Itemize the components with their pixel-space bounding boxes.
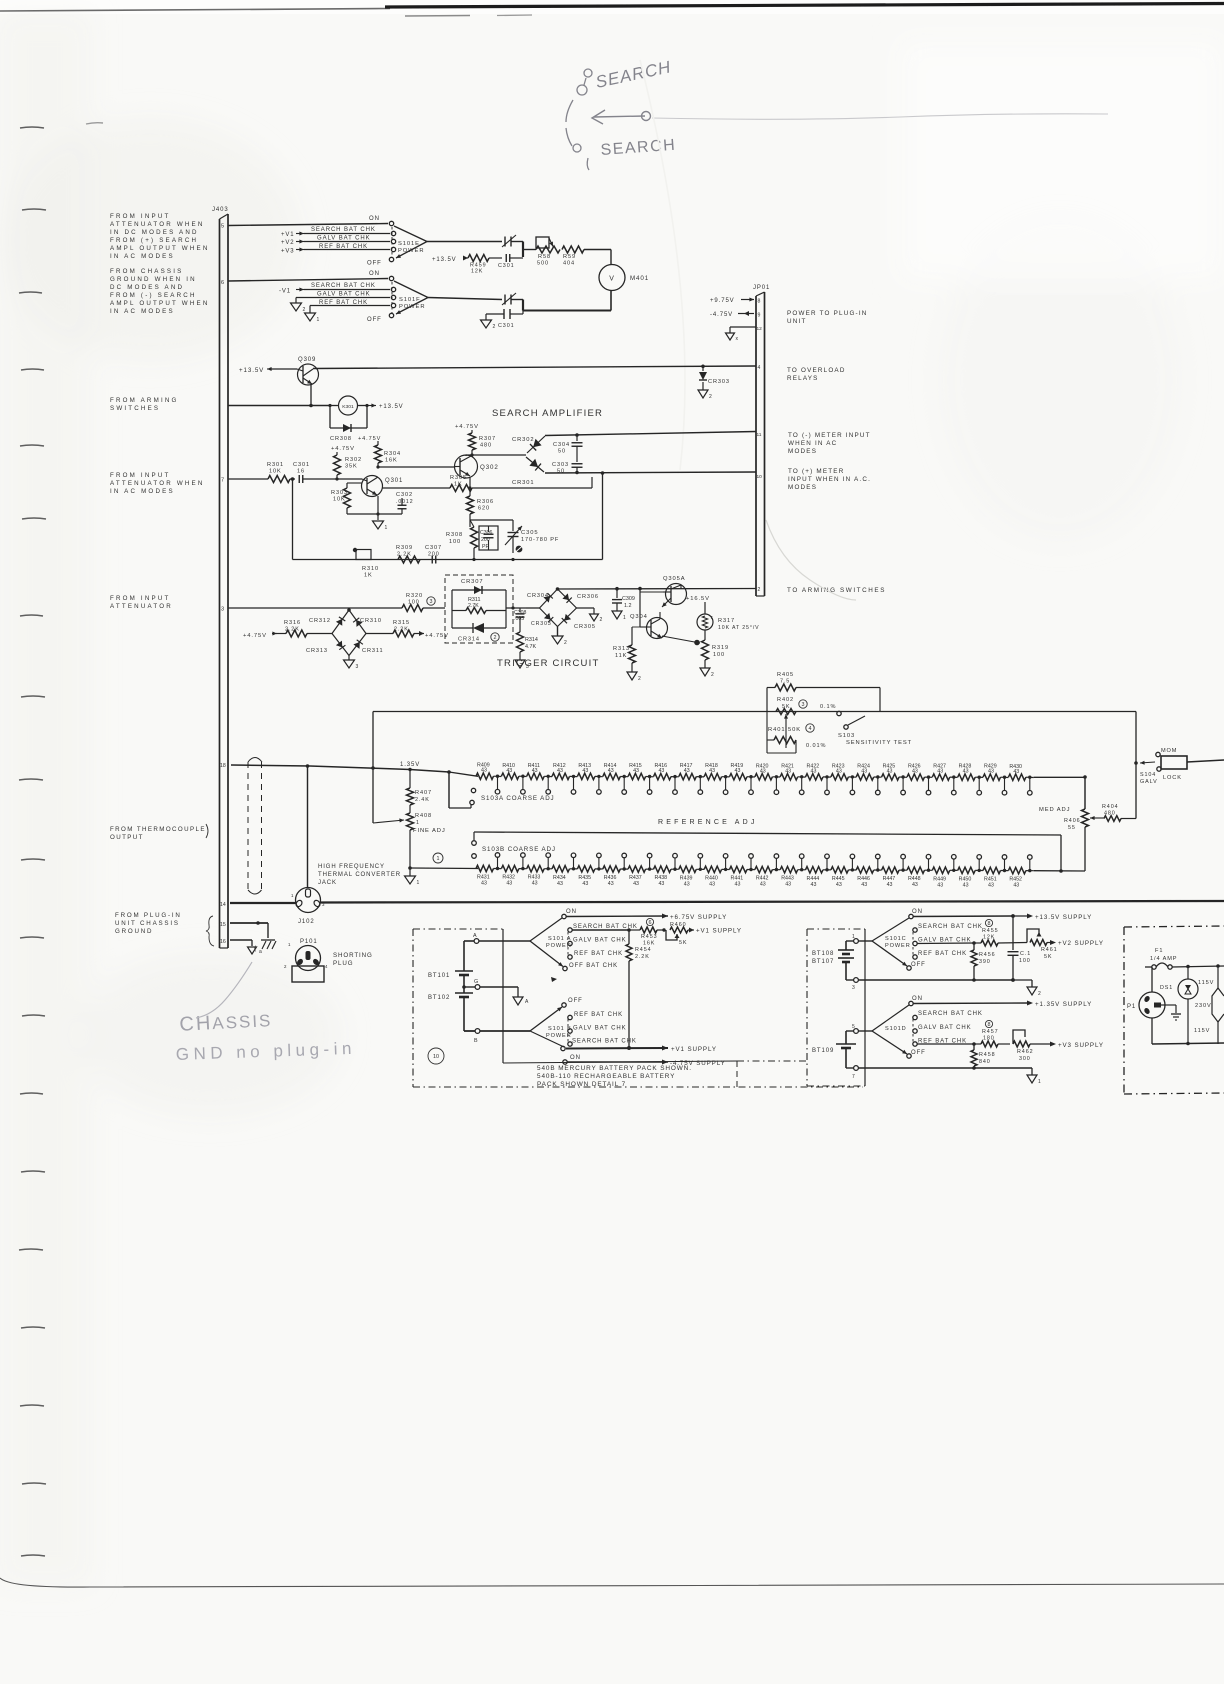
resistor R59 404 [562, 246, 584, 267]
tap contact 15 row2 [850, 854, 855, 872]
S103B selector [472, 832, 556, 858]
svg-text:1.2: 1.2 [624, 603, 632, 609]
pin 12 wire to ground [730, 326, 762, 333]
tap contact 9 row2 [698, 854, 703, 872]
pin 5 [846, 1024, 872, 1033]
big box top line [373, 711, 1136, 713]
resistor R456 [971, 943, 996, 982]
battery BT108/BT107 [812, 941, 854, 980]
svg-text:REF BAT CHK: REF BAT CHK [574, 951, 623, 957]
note: from chassis ground [110, 268, 210, 315]
transistor Q301 [362, 476, 404, 497]
resistor R404 [1102, 763, 1136, 821]
tap contact 21 row2 [1002, 855, 1007, 873]
transistor Q305A [640, 576, 687, 607]
switch S101C [872, 909, 926, 970]
svg-text:P1: P1 [1127, 1004, 1136, 1010]
note to (+) meter input [788, 468, 871, 491]
svg-text:18: 18 [220, 763, 226, 769]
svg-text:OFF: OFF [367, 261, 382, 267]
note: from arming switches [110, 397, 179, 412]
svg-text:16K: 16K [385, 458, 398, 464]
svg-text:+16.5V: +16.5V [686, 596, 710, 602]
resistor R427 [932, 764, 957, 781]
svg-text:R408: R408 [415, 813, 432, 819]
tap contact 17 row2 [901, 854, 906, 872]
coupling symbol lower [502, 293, 516, 305]
svg-text:C301: C301 [498, 263, 515, 269]
capacitor C306 box [479, 526, 498, 550]
svg-text:ON: ON [912, 909, 923, 915]
wire to pin 10 [545, 472, 756, 473]
svg-text:5: 5 [221, 224, 225, 230]
tap contact 3 row1 [546, 775, 551, 795]
AC box bottom wire [1152, 1042, 1224, 1046]
svg-text:C307: C307 [425, 545, 442, 551]
svg-text:REFERENCE ADJ: REFERENCE ADJ [658, 819, 758, 826]
resistor R421 [780, 763, 805, 780]
label +4.75V (bridge right) [414, 631, 449, 639]
svg-text:x: x [736, 336, 739, 342]
svg-text:50: 50 [557, 469, 565, 475]
svg-text:1.35V: 1.35V [400, 762, 420, 768]
handwritten note: SEARCH (top) [566, 69, 592, 170]
svg-text:C306: C306 [480, 530, 493, 536]
svg-text:C301: C301 [498, 323, 515, 329]
capacitor C303 [552, 447, 583, 475]
svg-text:CR312: CR312 [309, 618, 331, 624]
svg-text:IN AC MODES: IN AC MODES [110, 488, 175, 495]
svg-text:IN AC MODES: IN AC MODES [110, 308, 175, 315]
svg-text:1: 1 [291, 893, 294, 898]
ground V1 battery bottom [974, 1068, 1042, 1085]
svg-text:7.5: 7.5 [780, 679, 790, 685]
svg-text:R404: R404 [1102, 804, 1119, 810]
wire +1.35V supply [913, 1001, 1092, 1009]
svg-text:a: a [259, 949, 263, 955]
tap contact 14 row2 [825, 854, 830, 872]
svg-text:1: 1 [416, 820, 420, 826]
svg-text:S101 A: S101 A [548, 936, 571, 942]
svg-text:2: 2 [1038, 991, 1042, 997]
resistor R413 [577, 763, 602, 780]
diode CR307 [452, 579, 506, 628]
svg-text:R407: R407 [415, 790, 432, 796]
resistor R424 [856, 763, 881, 780]
svg-text:PLUG: PLUG [333, 960, 353, 967]
svg-text:480: 480 [480, 443, 492, 449]
svg-text:3: 3 [221, 607, 225, 613]
wire pin7 input [228, 478, 268, 480]
svg-text:C302: C302 [396, 492, 413, 498]
wire Q302 base [378, 466, 455, 468]
svg-text:CR301: CR301 [512, 480, 535, 486]
resistor R307 [469, 433, 496, 455]
battery BT101 [428, 941, 473, 982]
svg-text:OFF: OFF [911, 1050, 926, 1056]
tap contact 20 row1 [977, 776, 982, 796]
switch S103 sensitivity test [806, 704, 912, 749]
svg-text:S103B COARSE ADJ: S103B COARSE ADJ [482, 846, 556, 853]
svg-text:S104: S104 [1140, 772, 1156, 778]
wire collector node [466, 454, 526, 456]
resistor R412 [552, 763, 577, 780]
label +13.5V (Q309) [239, 367, 297, 374]
wire galv bat chk R455 [917, 942, 974, 945]
tap contact 2 row2 [521, 853, 526, 871]
svg-text:S103: S103 [838, 733, 855, 739]
svg-text:2.4K: 2.4K [415, 797, 430, 803]
svg-text:2: 2 [600, 617, 604, 623]
svg-text:1: 1 [623, 615, 627, 621]
svg-text:1: 1 [437, 856, 440, 862]
svg-text:OUTPUT: OUTPUT [110, 834, 144, 841]
note: from input attenuator AC modes [110, 472, 205, 495]
pencil stroke to ground symbol [196, 962, 252, 1018]
brace pins 15-16 [206, 916, 214, 946]
svg-text:2: 2 [638, 676, 642, 682]
svg-text:R456: R456 [979, 952, 996, 958]
main ground line [230, 902, 296, 904]
resistor R314 [517, 632, 538, 660]
resistor R428 [958, 764, 983, 781]
svg-text:GROUND: GROUND [115, 928, 153, 935]
wire pin16 to gnd A [230, 940, 252, 946]
capacitor C301 input [293, 462, 310, 483]
pin 9 wire -4.75V [710, 311, 761, 319]
capacitor C309 [612, 587, 635, 611]
label -V1 [279, 288, 304, 295]
AC line dash-dot box [1124, 926, 1224, 1094]
resistor R431 [476, 865, 501, 886]
svg-text:+1.35V SUPPLY: +1.35V SUPPLY [1035, 1001, 1092, 1008]
svg-text:CR307: CR307 [461, 579, 484, 585]
svg-text:43: 43 [836, 882, 842, 888]
svg-text:+4.75V: +4.75V [455, 424, 479, 430]
switch S104 galv lock [1134, 712, 1187, 786]
svg-text:6: 6 [221, 280, 225, 286]
wire REF BAT CHK [304, 244, 390, 250]
svg-text:GALV BAT CHK: GALV BAT CHK [918, 1025, 971, 1031]
svg-text:R453: R453 [641, 934, 658, 940]
bias +4.75V (R302) [331, 446, 355, 455]
label +13.5V (K301) [367, 404, 404, 411]
svg-text:C309: C309 [622, 596, 635, 602]
svg-text:K301: K301 [342, 404, 354, 410]
resistor R450 [958, 867, 983, 888]
terminal G wire + gnd A [462, 979, 529, 1005]
svg-text:IN AC MODES: IN AC MODES [110, 253, 175, 260]
svg-text:43: 43 [811, 882, 817, 888]
svg-text:8: 8 [988, 921, 991, 927]
svg-text:43: 43 [1013, 883, 1019, 889]
wire pin18 row1 [231, 765, 310, 766]
svg-text:R458: R458 [979, 1052, 996, 1058]
svg-text:CR306: CR306 [577, 594, 599, 600]
pot R310 [353, 548, 379, 579]
svg-text:43: 43 [658, 881, 664, 887]
svg-text:S101F: S101F [399, 297, 421, 303]
svg-text:BT108: BT108 [812, 951, 834, 957]
svg-text:J403: J403 [212, 207, 229, 213]
wire to transistor bases [639, 589, 641, 627]
shield dashes [248, 758, 262, 895]
tap contact 12 row1 [774, 775, 779, 794]
svg-text:R317: R317 [718, 618, 735, 624]
ground V1 (R408) [405, 866, 421, 886]
resistor R422 [806, 763, 831, 780]
svg-text:500: 500 [537, 261, 549, 267]
svg-text:R455: R455 [982, 928, 999, 934]
resistor R320 [319, 593, 445, 612]
wire pin15 to chassis gnd [230, 921, 268, 938]
battery pack caption [537, 1065, 692, 1088]
wire C301 to Q301 base [303, 478, 362, 480]
wire ref bat chk R457 [917, 1043, 974, 1045]
svg-text:43: 43 [963, 882, 969, 888]
arming line from bridge top [558, 588, 757, 591]
resistor R432 [501, 865, 526, 886]
svg-text:R301: R301 [267, 462, 284, 468]
svg-text:CR305: CR305 [574, 624, 596, 630]
svg-text:R402: R402 [777, 697, 794, 703]
svg-text:CR314: CR314 [458, 637, 480, 643]
svg-text:AMPL OUTPUT WHEN: AMPL OUTPUT WHEN [110, 300, 210, 307]
svg-text:C301: C301 [293, 462, 310, 468]
svg-text:C.1: C.1 [1020, 951, 1031, 957]
svg-text:2.2K: 2.2K [635, 954, 650, 960]
feedback bottom wire [292, 479, 294, 560]
circled 10 [428, 1048, 444, 1064]
svg-text:CR313: CR313 [306, 648, 328, 654]
capacitor C308 [514, 608, 527, 632]
svg-text:43: 43 [557, 881, 563, 887]
row2 top rail [474, 832, 1061, 835]
svg-text:GALV BAT CHK: GALV BAT CHK [317, 236, 370, 242]
tap contact 13 row2 [799, 854, 804, 872]
svg-text:DC MODES AND: DC MODES AND [110, 284, 184, 291]
tap contact 11 row2 [749, 854, 754, 872]
resistor R311 [452, 597, 506, 614]
Q309 emitter wire [310, 384, 312, 406]
svg-text:POWER TO PLUG-IN: POWER TO PLUG-IN [787, 310, 868, 317]
svg-text:SEARCH BAT CHK: SEARCH BAT CHK [918, 924, 983, 930]
tap contact 4 row2 [571, 853, 576, 871]
svg-text:+V3: +V3 [281, 249, 295, 255]
resistor R316 [284, 620, 332, 637]
svg-text:50: 50 [558, 449, 566, 455]
wire S101E common to meter network [427, 241, 502, 243]
svg-text:43: 43 [608, 881, 614, 887]
svg-text:840: 840 [979, 1059, 991, 1065]
plug P1 [1127, 967, 1165, 1044]
svg-text:2: 2 [284, 964, 287, 969]
wire S101F ref bat chk to gnd [310, 300, 390, 313]
svg-text:7: 7 [221, 478, 225, 484]
svg-text:R304: R304 [384, 451, 401, 457]
resistor R433 [527, 866, 552, 887]
tap contact 22 row2 [1028, 855, 1033, 873]
svg-text:+V1 SUPPLY: +V1 SUPPLY [671, 1046, 717, 1053]
svg-text:10K: 10K [269, 469, 282, 475]
sensitivity loop: resistor R405 [767, 672, 880, 712]
resistor R435 [577, 866, 602, 887]
svg-text:FROM (-) SEARCH: FROM (-) SEARCH [110, 292, 197, 299]
resistor R418 [704, 763, 729, 780]
connector J403 bus [212, 207, 229, 948]
meter return wire [523, 310, 611, 312]
svg-text:S101E: S101E [398, 241, 420, 247]
svg-text:R319: R319 [712, 645, 729, 651]
svg-text:JACK: JACK [318, 880, 337, 886]
top page edge line [0, 4, 1224, 17]
resistor R303 [331, 483, 362, 514]
svg-text:9: 9 [758, 313, 762, 319]
svg-text:R59: R59 [563, 254, 576, 260]
svg-text:CR303: CR303 [708, 379, 730, 385]
transistor Q309 [297, 357, 319, 385]
svg-text:GALV: GALV [1140, 779, 1158, 785]
svg-text:+9.75V: +9.75V [710, 298, 735, 304]
tap contact 3 row2 [546, 853, 551, 871]
svg-text:43: 43 [811, 768, 817, 774]
pot R460 [666, 922, 742, 946]
tap contact 16 row2 [876, 854, 881, 872]
svg-text:POWER: POWER [398, 248, 424, 254]
tap contact 21 row1 [1002, 776, 1007, 796]
relay K301 [328, 396, 368, 428]
svg-text:16: 16 [220, 939, 226, 945]
svg-text:CR303: CR303 [531, 621, 552, 627]
note: from thermocouple output [110, 824, 208, 841]
svg-text:3: 3 [852, 985, 856, 991]
svg-text:8: 8 [758, 299, 762, 305]
svg-text:SWITCHES: SWITCHES [110, 405, 160, 412]
battery BT109 [812, 1031, 856, 1068]
svg-text:DS1: DS1 [1160, 985, 1173, 991]
resistor R444 [806, 867, 831, 888]
svg-text:S103A COARSE ADJ: S103A COARSE ADJ [481, 795, 555, 802]
svg-text:ON: ON [566, 909, 577, 915]
svg-text:R405: R405 [777, 672, 794, 678]
svg-text:TO OVERLOAD: TO OVERLOAD [787, 367, 846, 374]
svg-text:15: 15 [220, 922, 226, 928]
svg-text:POWER: POWER [399, 304, 425, 310]
svg-text:ATTENUATOR: ATTENUATOR [110, 603, 173, 610]
wire Q309 collector to overload pin [313, 366, 756, 369]
jog down to meter return [511, 299, 523, 301]
emitter network wires [347, 513, 402, 515]
transistor Q304 [630, 612, 668, 639]
switch S101D [872, 996, 926, 1058]
svg-text:43: 43 [988, 883, 994, 889]
diode CR303 [699, 366, 730, 390]
variable capacitor C305 [505, 520, 559, 553]
svg-text:SHORTING: SHORTING [333, 952, 373, 959]
svg-text:T: T [710, 615, 713, 620]
pot R461 [1027, 929, 1104, 960]
svg-text:1: 1 [385, 525, 389, 531]
svg-text:+V2: +V2 [281, 240, 295, 246]
ground V2 (bridge2 bottom) [552, 627, 568, 647]
svg-text:ON: ON [369, 271, 380, 277]
svg-text:43: 43 [709, 768, 715, 774]
svg-text:3: 3 [356, 664, 360, 670]
svg-text:R313: R313 [613, 646, 630, 652]
svg-text:4: 4 [325, 964, 328, 969]
resistor R304 [375, 441, 401, 469]
svg-text:43: 43 [861, 768, 867, 774]
tap contact 14 row1 [825, 775, 830, 795]
battery BT102 [428, 982, 473, 1031]
wire S101B search bat chk +V1 [566, 1046, 717, 1054]
svg-text:B: B [474, 1038, 479, 1044]
label +V1 [281, 232, 304, 239]
svg-text:C305: C305 [521, 530, 538, 536]
ground V3 (R314) [515, 660, 525, 668]
svg-text:IN DC MODES AND: IN DC MODES AND [110, 229, 199, 236]
tap contact 12 row2 [774, 854, 779, 872]
trigger dashed box [445, 575, 513, 643]
svg-text:ATTENUATOR WHEN: ATTENUATOR WHEN [110, 480, 205, 487]
svg-text:R308: R308 [446, 532, 463, 538]
capacitor C307 [425, 545, 442, 564]
svg-text:540B-110 RECHARGEABLE BATTERY: 540B-110 RECHARGEABLE BATTERY [537, 1073, 675, 1080]
svg-text:SEARCH BAT CHK: SEARCH BAT CHK [311, 227, 376, 233]
svg-text:+13.5V SUPPLY: +13.5V SUPPLY [1035, 914, 1092, 921]
wire SEARCH BAT CHK [304, 227, 390, 234]
resistor R301 [267, 462, 290, 483]
svg-text:LOCK: LOCK [1163, 775, 1182, 781]
pin 7 bottom [846, 1066, 974, 1080]
ground V2 battery mid [1013, 980, 1042, 997]
chassis ground (77) [254, 940, 276, 952]
svg-text:2: 2 [303, 307, 307, 313]
ground V2 (fan F galv) [291, 303, 302, 311]
svg-text:C304: C304 [553, 442, 570, 448]
handwritten arrow [592, 110, 651, 124]
S101C labels [918, 924, 983, 957]
svg-text:OFF: OFF [568, 998, 583, 1004]
resistor R410 [501, 763, 526, 780]
svg-text:CR311: CR311 [362, 648, 384, 654]
terminal A [464, 933, 530, 943]
svg-text:R457: R457 [982, 1029, 999, 1035]
resistor R439 [679, 866, 704, 887]
resistor R411 [527, 763, 552, 780]
resistor R440 [704, 866, 729, 887]
tap contact 11 row1 [749, 775, 754, 795]
svg-text:ON: ON [369, 216, 380, 222]
svg-text:12: 12 [757, 326, 763, 332]
wire to pin 11 [545, 432, 756, 436]
connector JP01 [753, 285, 770, 596]
tap contact 10 row1 [723, 775, 728, 795]
fuse F1 [1145, 948, 1224, 969]
wire S101B ON -4.75V [563, 1060, 726, 1068]
svg-text:CR310: CR310 [360, 618, 382, 624]
ground V3 (bridge) [344, 656, 360, 671]
svg-text:F1: F1 [1155, 948, 1163, 954]
svg-text:R406: R406 [1064, 818, 1081, 824]
node CR303 [701, 365, 705, 369]
svg-text:1: 1 [1038, 1079, 1042, 1085]
resistor R441 [730, 866, 755, 887]
tap contact 17 row1 [901, 775, 906, 795]
plug pin to ground [1161, 1005, 1181, 1020]
svg-text:1/4 AMP: 1/4 AMP [1150, 956, 1177, 962]
resistor R429 [983, 764, 1008, 781]
